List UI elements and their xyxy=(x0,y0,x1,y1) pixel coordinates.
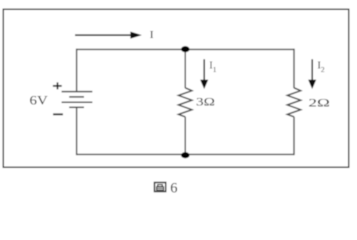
svg-text:2Ω: 2Ω xyxy=(308,95,330,109)
caption: figure number 6 xyxy=(170,181,177,197)
resistor R2 zigzag (2 ohm) xyxy=(287,88,300,117)
wire: top horizontal xyxy=(77,48,294,50)
label 6V xyxy=(30,94,48,108)
svg-text:6V: 6V xyxy=(30,94,48,108)
wire: middle branch lower xyxy=(184,117,186,156)
resistor R1 zigzag (3 ohm) xyxy=(179,88,192,117)
svg-text:3Ω: 3Ω xyxy=(196,95,215,109)
battery - label xyxy=(53,113,63,115)
label I2 xyxy=(317,60,325,74)
current arrow I2 xyxy=(311,59,313,81)
current arrow I1 xyxy=(203,59,205,81)
svg-text:I: I xyxy=(150,30,155,41)
wire: left vertical upper (to battery +) xyxy=(76,49,78,92)
current arrow I (top) xyxy=(75,34,132,36)
node B (bottom junction dot) xyxy=(181,152,189,158)
label 3 ohm xyxy=(196,95,215,109)
node A (top junction dot) xyxy=(181,46,189,52)
caption: boxed CJK character (figure) xyxy=(155,183,166,192)
wire: bottom horizontal xyxy=(77,153,294,155)
wire: middle branch upper xyxy=(184,49,186,88)
battery V1 (6V) plates xyxy=(62,92,93,108)
battery + label xyxy=(53,82,62,89)
wire: right vertical upper xyxy=(293,49,295,88)
label I xyxy=(150,30,155,41)
svg-text:6: 6 xyxy=(170,181,177,197)
wire: right vertical lower xyxy=(293,117,295,155)
label I1 xyxy=(209,60,217,74)
wire: left vertical lower (battery - to bottom) xyxy=(76,107,78,155)
border frame xyxy=(3,9,348,167)
label 2 ohm xyxy=(308,95,330,109)
